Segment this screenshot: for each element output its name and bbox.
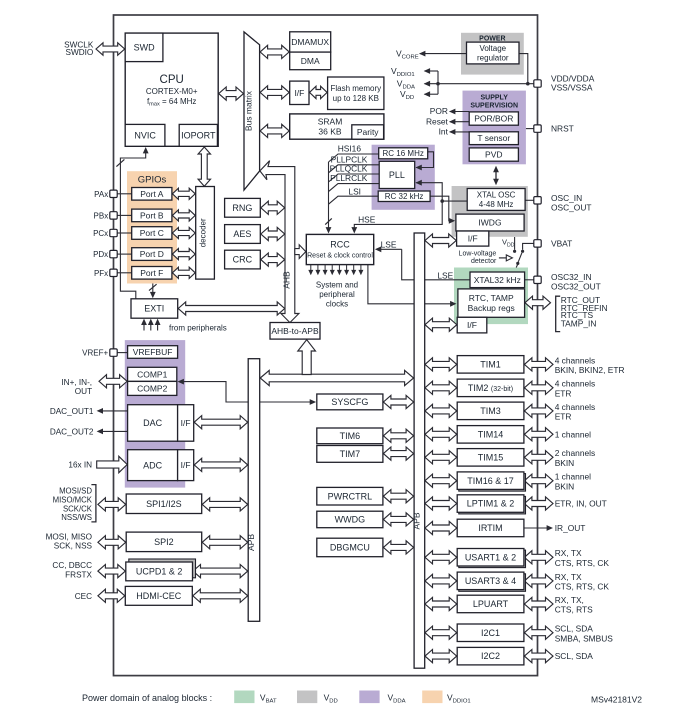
svg-text:PCx: PCx xyxy=(93,229,108,238)
svg-text:I/F: I/F xyxy=(294,88,304,98)
svg-text:I/F: I/F xyxy=(181,460,191,470)
block TIM7 xyxy=(317,446,383,463)
arrow port D to decoder xyxy=(172,249,195,260)
arrow LPUART to pins xyxy=(524,597,553,610)
wire PLLQCLK xyxy=(329,174,380,182)
block Flash memory xyxy=(328,77,384,110)
svg-text:I/F: I/F xyxy=(467,320,477,330)
svg-text:SCL, SDA: SCL, SDA xyxy=(555,651,594,661)
bracket RTC pin group xyxy=(556,296,561,331)
block Parity xyxy=(352,125,384,139)
arrow APB to XTAL I/F xyxy=(425,234,456,247)
svg-text:UCPD1 & 2: UCPD1 & 2 xyxy=(136,567,183,577)
arrow port F to decoder xyxy=(172,267,195,278)
svg-text:APB: APB xyxy=(412,512,422,529)
svg-text:T sensor: T sensor xyxy=(477,133,510,143)
wire GPIOs to EXTI xyxy=(152,284,154,294)
wire XTAL OSC to OSC pins xyxy=(525,199,534,201)
bus matrix trapezoid xyxy=(244,32,260,190)
block Port F xyxy=(132,267,172,280)
arrow port B to decoder xyxy=(172,210,195,221)
svg-text:OSC_OUT: OSC_OUT xyxy=(551,202,592,212)
block DAC I/F xyxy=(178,405,194,442)
svg-text:PFx: PFx xyxy=(94,269,108,278)
svg-text:RC 16 MHz: RC 16 MHz xyxy=(383,149,424,158)
svg-text:CTS, RTS: CTS, RTS xyxy=(555,605,593,615)
arrow APB to USART1 & 2 xyxy=(425,551,457,564)
svg-text:RX, TX,: RX, TX, xyxy=(555,595,584,605)
svg-text:ETR: ETR xyxy=(555,388,572,398)
block USART1 & 2 xyxy=(459,550,526,568)
arrow AES to AHB xyxy=(261,227,285,240)
svg-text:CORTEX-M0+: CORTEX-M0+ xyxy=(146,87,198,96)
wire LSI to IWDG xyxy=(430,196,451,221)
svg-text:PAx: PAx xyxy=(94,190,108,199)
arrow UCPD left xyxy=(98,565,125,578)
arrow APB to TIM6 xyxy=(383,429,413,442)
arrow APB to DBGMCU xyxy=(383,541,413,554)
svg-text:TIM16 & 17: TIM16 & 17 xyxy=(467,476,514,486)
wire DAC_OUT1 xyxy=(100,410,127,412)
wire Reset output xyxy=(450,121,470,123)
wire HSE XTAL OSC to PLL xyxy=(416,183,467,201)
svg-text:TIM1: TIM1 xyxy=(480,360,501,370)
svg-text:Low-voltage: Low-voltage xyxy=(459,250,497,257)
block PWRCTRL xyxy=(317,487,383,505)
wire COMP2 to SYSCFG xyxy=(183,382,311,402)
block PLL xyxy=(379,161,415,188)
block IOPORT xyxy=(179,124,217,146)
arrow LPTIM1 & 2 to pins xyxy=(524,497,553,510)
arrow APB to TIM16 & 17 xyxy=(425,474,457,487)
svg-text:Parity: Parity xyxy=(357,127,379,137)
pin OSC_IN OSC_OUT xyxy=(534,197,541,204)
wire VDDIO1 branch xyxy=(437,71,439,94)
svg-text:CPU: CPU xyxy=(160,74,184,86)
block SWD xyxy=(125,33,163,62)
wire LSE down to XTAL32 xyxy=(402,249,470,279)
svg-text:MOSI/SD: MOSI/SD xyxy=(59,487,92,496)
block TIM15 xyxy=(457,449,524,467)
pin NRST xyxy=(534,125,541,132)
svg-text:TIM3: TIM3 xyxy=(480,406,501,416)
svg-text:I2C1: I2C1 xyxy=(481,628,500,638)
arrow I2C1 to pins xyxy=(524,626,553,639)
block CPU CORTEX-M0+ xyxy=(125,33,218,146)
slash on GPIO-EXTI wire xyxy=(149,284,157,290)
wire IRTIM to IR_OUT xyxy=(524,527,548,529)
svg-text:Port B: Port B xyxy=(140,210,164,220)
svg-text:TIM6: TIM6 xyxy=(340,431,361,441)
block ADC xyxy=(128,450,178,481)
svg-text:VSS/VSSA: VSS/VSSA xyxy=(551,83,593,93)
arrow APB to LPTIM1 & 2 xyxy=(425,497,457,510)
svg-text:WWDG: WWDG xyxy=(335,515,366,525)
arrow CEC left xyxy=(98,589,125,602)
block XTAL OSC 4-48 MHz xyxy=(467,189,525,211)
wire VDD to battery switch xyxy=(514,237,516,250)
block TIM3 xyxy=(457,402,524,420)
arrow APB to SYSCFG xyxy=(383,395,413,408)
block LPTIM1 & 2 xyxy=(459,496,526,514)
svg-text:COMP2: COMP2 xyxy=(137,383,168,393)
svg-text:GPIOs: GPIOs xyxy=(138,175,167,186)
wire PBx to Port B xyxy=(117,214,132,216)
svg-text:SCL, SDA: SCL, SDA xyxy=(555,624,594,634)
svg-text:Backup regs: Backup regs xyxy=(468,303,515,313)
pin PFx xyxy=(110,269,117,276)
arrow IOPORT to decoder xyxy=(198,147,210,186)
block TIM1 xyxy=(457,356,524,374)
svg-text:RC 32 kHz: RC 32 kHz xyxy=(385,192,424,201)
arrow TIM16 & 17 to pins xyxy=(524,474,553,487)
arrow EXTI to AHB xyxy=(178,302,285,315)
svg-text:Port D: Port D xyxy=(140,249,164,259)
arrow RNG to AHB xyxy=(261,201,285,214)
slash on EXTI-NVIC wire xyxy=(116,159,124,166)
svg-text:USART1 & 2: USART1 & 2 xyxy=(465,552,516,562)
svg-text:Power domain of analog blocks: Power domain of analog blocks : xyxy=(82,693,212,703)
block SYSCFG xyxy=(317,394,383,410)
arrow HDMI-CEC to APB xyxy=(193,589,248,602)
block EXTI xyxy=(131,299,178,318)
svg-text:36 KB: 36 KB xyxy=(318,126,341,136)
block PVD xyxy=(469,148,518,161)
svg-text:LPTIM1 & 2: LPTIM1 & 2 xyxy=(467,499,515,509)
svg-text:from peripherals: from peripherals xyxy=(169,323,227,332)
svg-text:USART3 & 4: USART3 & 4 xyxy=(465,576,516,586)
block RC 32 kHz xyxy=(378,191,430,202)
svg-text:decoder: decoder xyxy=(199,218,208,247)
svg-text:CTS, RTS, CK: CTS, RTS, CK xyxy=(555,558,610,568)
block I2C2 xyxy=(457,647,524,665)
svg-text:Reset & clock control: Reset & clock control xyxy=(307,252,373,259)
svg-text:NRST: NRST xyxy=(551,124,574,134)
svg-text:SWDIO: SWDIO xyxy=(66,48,94,57)
arrow APB cross bar xyxy=(260,370,413,385)
svg-text:VDD: VDD xyxy=(502,237,515,248)
block COMP2 xyxy=(128,381,177,395)
block SRAM xyxy=(290,114,384,139)
pin PDx xyxy=(110,250,117,257)
svg-text:RTC, TAMP: RTC, TAMP xyxy=(469,293,514,303)
block TIM14 xyxy=(457,426,524,444)
svg-text:CEC: CEC xyxy=(75,592,92,601)
svg-text:NVIC: NVIC xyxy=(134,131,156,141)
arrow APB to IRTIM xyxy=(425,521,457,534)
block decoder xyxy=(196,187,215,280)
svg-text:Port F: Port F xyxy=(140,268,163,278)
svg-text:I/F: I/F xyxy=(181,418,191,428)
block LPUART xyxy=(457,595,524,613)
pin VBAT xyxy=(534,240,541,247)
wire Int output xyxy=(450,131,470,133)
wire HSI16 to clock mux xyxy=(329,154,379,162)
block T sensor xyxy=(469,132,518,145)
low-voltage detector arrow xyxy=(499,257,506,259)
arrow TIM14 to pins xyxy=(524,428,553,441)
svg-text:Bus matrix: Bus matrix xyxy=(244,90,254,131)
arrow SPI2 left xyxy=(98,536,126,549)
wire PFx to Port F xyxy=(117,272,132,274)
wires from peripherals into EXTI xyxy=(143,324,145,331)
svg-text:SRAM: SRAM xyxy=(318,116,343,126)
svg-text:Port C: Port C xyxy=(140,228,164,238)
wire NRST to pin xyxy=(526,128,534,130)
arrow UCPD to APB xyxy=(193,565,248,578)
svg-text:IWDG: IWDG xyxy=(478,218,501,228)
svg-text:VDDA: VDDA xyxy=(388,693,406,705)
svg-text:NSS/WS: NSS/WS xyxy=(61,513,92,522)
svg-text:RX, TX: RX, TX xyxy=(555,548,582,558)
svg-text:COMP1: COMP1 xyxy=(137,369,168,379)
svg-text:SCK, NSS: SCK, NSS xyxy=(54,542,93,551)
svg-text:2 channels: 2 channels xyxy=(555,448,596,458)
svg-text:ADC: ADC xyxy=(143,460,163,470)
pin PAx xyxy=(110,190,117,197)
arrow APB to PWRCTRL xyxy=(383,490,413,503)
svg-text:VDDIO1: VDDIO1 xyxy=(447,693,471,705)
arrow APB to RTC I/F xyxy=(425,318,457,331)
svg-text:SUPERVISION: SUPERVISION xyxy=(470,103,518,110)
svg-text:BKIN, BKIN2, ETR: BKIN, BKIN2, ETR xyxy=(555,365,625,375)
arrow bus matrix to DMAMUX xyxy=(260,45,289,58)
svg-text:VBAT: VBAT xyxy=(551,238,572,248)
svg-text:PLLRCLK: PLLRCLK xyxy=(330,173,368,183)
arrow IN+ IN- OUT to COMP xyxy=(99,375,127,388)
block AHB-to-APB bridge xyxy=(270,323,320,340)
svg-text:SPI2: SPI2 xyxy=(154,537,174,547)
arrow USART3 & 4 to pins xyxy=(524,574,553,587)
block NVIC xyxy=(125,124,165,146)
wire PDx to Port D xyxy=(117,253,132,255)
pin VDD/VDDA VSS/VSSA xyxy=(534,80,541,87)
wire RCC to RTC backup domain xyxy=(368,265,452,304)
wire voltage regulator to VDD rail xyxy=(519,54,528,84)
svg-text:MOSI, MISO: MOSI, MISO xyxy=(46,532,92,541)
svg-text:DMAMUX: DMAMUX xyxy=(291,37,329,47)
svg-text:PVD: PVD xyxy=(485,150,502,160)
arrow I2C2 to pins xyxy=(524,650,553,663)
svg-text:ETR, IN, OUT: ETR, IN, OUT xyxy=(555,499,607,509)
arrow port C to decoder xyxy=(172,227,195,238)
arrow TIM15 to pins xyxy=(524,451,553,464)
svg-text:RNG: RNG xyxy=(232,203,252,213)
svg-text:MSv42181V2: MSv42181V2 xyxy=(591,695,642,705)
wire PLLPCLK xyxy=(329,165,380,173)
block TIM6 xyxy=(317,428,383,444)
svg-text:LSE: LSE xyxy=(437,270,453,280)
APB bus bar right xyxy=(414,233,425,668)
arrow APB to TIM1 xyxy=(425,358,457,371)
svg-text:LPUART: LPUART xyxy=(473,599,509,609)
svg-text:AES: AES xyxy=(233,229,251,239)
APB bus bar left xyxy=(248,359,260,622)
svg-text:VDDIO1: VDDIO1 xyxy=(391,66,415,78)
block USART3 & 4 xyxy=(459,574,526,592)
svg-text:HSI16: HSI16 xyxy=(338,144,362,154)
svg-text:I/F: I/F xyxy=(468,234,478,244)
svg-text:XTAL32 kHz: XTAL32 kHz xyxy=(474,275,521,285)
arrow flash I/F to flash memory xyxy=(310,86,328,98)
outer frame of MCU xyxy=(114,15,538,676)
power domain background VDD XTAL OSC IWDG xyxy=(452,186,528,237)
svg-text:peripheral: peripheral xyxy=(319,290,355,299)
arrow APB to WWDG xyxy=(383,513,413,526)
svg-text:MISO/MCK: MISO/MCK xyxy=(53,496,93,505)
svg-text:TAMP_IN: TAMP_IN xyxy=(561,319,597,329)
arrow TIM3 to pins xyxy=(524,404,553,417)
svg-text:FRSTX: FRSTX xyxy=(65,570,92,579)
svg-text:4 channels: 4 channels xyxy=(555,402,596,412)
clock arrows out of RCC xyxy=(310,265,312,271)
block RNG xyxy=(225,198,261,217)
svg-text:DAC: DAC xyxy=(143,418,163,428)
svg-text:Reset: Reset xyxy=(426,116,449,126)
svg-text:HSE: HSE xyxy=(358,215,376,225)
arrow TIM1 to pins xyxy=(524,358,553,371)
svg-text:VDD: VDD xyxy=(324,693,338,705)
svg-text:detector: detector xyxy=(471,258,497,265)
arrow USART1 & 2 to pins xyxy=(524,551,553,564)
arrow SPI2 to APB xyxy=(202,536,248,549)
svg-text:up to 128 KB: up to 128 KB xyxy=(333,94,379,103)
block ADC I/F xyxy=(178,450,194,481)
svg-text:XTAL OSC: XTAL OSC xyxy=(477,191,516,200)
svg-text:BKIN: BKIN xyxy=(555,458,575,468)
svg-text:4-48 MHz: 4-48 MHz xyxy=(479,200,514,209)
block TIM2 xyxy=(457,379,524,397)
svg-text:RCC: RCC xyxy=(330,239,350,249)
svg-text:SYSCFG: SYSCFG xyxy=(331,397,368,407)
block AES xyxy=(225,225,261,244)
svg-text:OUT: OUT xyxy=(75,387,92,396)
arrow CPU to bus matrix xyxy=(219,87,244,100)
svg-text:AHB: AHB xyxy=(282,271,292,289)
wire PVD to VDD monitor double arrow xyxy=(495,169,497,182)
svg-text:IOPORT: IOPORT xyxy=(181,131,216,141)
wire VDD branch xyxy=(425,93,439,95)
svg-text:DMA: DMA xyxy=(301,56,320,66)
block RTC TAMP backup registers xyxy=(458,289,525,317)
svg-text:HDMI-CEC: HDMI-CEC xyxy=(136,591,181,601)
wire VDD/VDDA rail to pin xyxy=(425,83,534,85)
svg-text:Int: Int xyxy=(439,127,449,137)
arrow bus matrix to SRAM xyxy=(260,124,289,137)
block RTC I/F xyxy=(457,317,487,333)
block SPI1/I2S xyxy=(126,494,202,514)
wire DAC_OUT2 xyxy=(100,430,127,432)
svg-text:SWD: SWD xyxy=(134,43,155,53)
block IRTIM xyxy=(457,519,524,537)
svg-text:PLL: PLL xyxy=(389,170,405,180)
arrow ADC I/F to APB xyxy=(194,458,248,471)
block VREFBUF xyxy=(128,346,178,359)
block DMAMUX xyxy=(290,32,331,52)
block TIM16 & 17 xyxy=(459,474,526,492)
wire LSI to clock mux xyxy=(329,196,379,204)
power domain background VBAT XTAL32 RTC xyxy=(454,268,528,325)
block Port A xyxy=(132,188,172,201)
svg-text:POR/BOR: POR/BOR xyxy=(474,114,513,124)
svg-text:DBGMCU: DBGMCU xyxy=(330,543,370,553)
block HDMI-CEC xyxy=(125,586,192,605)
svg-text:IR_OUT: IR_OUT xyxy=(555,523,586,533)
svg-text:4 channels: 4 channels xyxy=(555,355,596,365)
power domain background VDD POWER block xyxy=(461,33,524,75)
wire LSE into RCC xyxy=(380,248,402,250)
svg-text:PBx: PBx xyxy=(94,211,109,220)
svg-text:PDx: PDx xyxy=(93,250,108,259)
arrow RTC to RTC pins xyxy=(525,296,551,309)
power domain background VDDA analog VREFBUF COMP DAC ADC xyxy=(125,340,185,488)
svg-text:16x IN: 16x IN xyxy=(68,461,92,470)
arrow up into AHB-to-APB xyxy=(298,340,316,375)
block WWDG xyxy=(317,511,383,528)
svg-text:PWRCTRL: PWRCTRL xyxy=(328,491,373,501)
svg-text:LSE: LSE xyxy=(381,239,397,249)
svg-text:Voltage: Voltage xyxy=(479,44,506,53)
slash on clock bundle wire xyxy=(325,218,332,224)
svg-text:VDD: VDD xyxy=(400,89,414,101)
block UCPD1 and 2 xyxy=(129,559,196,578)
arrow APB to I2C1 xyxy=(425,626,457,639)
arrow APB to TIM14 xyxy=(425,428,457,441)
svg-text:1 channel: 1 channel xyxy=(555,429,591,439)
svg-text:TIM7: TIM7 xyxy=(340,449,361,459)
arrow APB to TIM15 xyxy=(425,451,457,464)
svg-text:DAC_OUT1: DAC_OUT1 xyxy=(50,407,94,416)
svg-text:CTS, RTS, CK: CTS, RTS, CK xyxy=(555,582,610,592)
arrow APB to LPUART xyxy=(425,597,457,610)
wire XTAL32 to OSC32 pins xyxy=(525,279,534,281)
wire clock mux into RCC xyxy=(328,162,330,229)
block COMP1 xyxy=(128,367,177,381)
svg-text:VREFBUF: VREFBUF xyxy=(133,347,173,357)
svg-text:DAC_OUT2: DAC_OUT2 xyxy=(50,427,94,436)
svg-text:Flash memory: Flash memory xyxy=(330,84,381,93)
svg-text:POR: POR xyxy=(430,106,448,116)
svg-text:TIM14: TIM14 xyxy=(478,429,504,439)
wire POR output xyxy=(450,111,470,113)
arrow port A to decoder xyxy=(172,188,195,199)
svg-text:regulator: regulator xyxy=(477,54,509,63)
arrow DAC I/F to APB xyxy=(194,416,248,429)
svg-text:PLLQCLK: PLLQCLK xyxy=(330,164,368,174)
pin VREF+ xyxy=(110,349,117,356)
arrow APB to USART3 & 4 xyxy=(425,574,457,587)
block IWDG xyxy=(456,214,524,231)
block POR/BOR xyxy=(469,112,518,125)
svg-text:I2C2: I2C2 xyxy=(481,651,500,661)
svg-text:VREF+: VREF+ xyxy=(82,348,108,357)
arrow APB to TIM3 xyxy=(425,404,457,417)
svg-text:EXTI: EXTI xyxy=(144,304,164,314)
svg-text:Port A: Port A xyxy=(140,189,163,199)
wire PCx to Port C xyxy=(117,232,132,234)
power domain background VDDA clocks PLL xyxy=(372,145,435,210)
arrow TIM2 to pins xyxy=(524,381,553,394)
svg-text:AHB-to-APB: AHB-to-APB xyxy=(271,326,319,336)
wire HSE to RCC xyxy=(354,201,442,228)
arrow bus matrix to flash I/F xyxy=(260,86,289,99)
svg-text:SPI1/I2S: SPI1/I2S xyxy=(146,499,182,509)
block DAC xyxy=(128,405,178,442)
power domain background VDDA supply supervision xyxy=(463,91,526,165)
arrow APB to I2C2 xyxy=(425,650,457,663)
svg-text:CC, DBCC: CC, DBCC xyxy=(52,561,92,570)
arrow 16x IN to ADC xyxy=(97,456,128,472)
